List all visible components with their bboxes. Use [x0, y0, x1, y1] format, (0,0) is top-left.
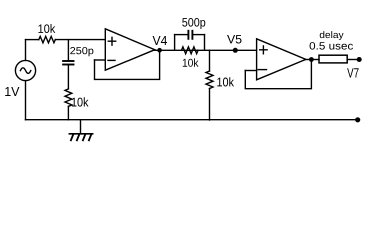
- resistor R4 10k vertical: [206, 71, 213, 89]
- wire main top-left corner to resistor R1: [26, 39, 39, 41]
- node rail end: [355, 117, 360, 122]
- sine wave inside source: [20, 68, 30, 74]
- wire R4 to ground rail: [209, 89, 211, 121]
- node V5: [233, 48, 238, 53]
- label V4: [153, 36, 167, 45]
- label 10k R1: [38, 24, 55, 33]
- wire up to capacitor C2 branch: [174, 35, 176, 51]
- ground hatch 3: [83, 135, 85, 141]
- ground symbol bar: [69, 133, 92, 135]
- wire delay box to V7: [347, 59, 359, 61]
- capacitor C1 250p bottom plate: [63, 64, 73, 66]
- delay box: [319, 55, 347, 63]
- ground hatch 2: [77, 135, 79, 141]
- wire U2 output to delay box: [306, 59, 319, 61]
- wire source top to main wire: [25, 40, 27, 61]
- label 500p C2: [182, 18, 205, 29]
- capacitor C2 500p left plate: [187, 31, 189, 39]
- wire U2 inverting stub: [245, 70, 256, 72]
- resistor R1 10k horizontal: [39, 36, 56, 42]
- label 10k R4: [217, 77, 234, 86]
- wire R1 to op-amp U1 + input: [55, 39, 105, 41]
- label 250p C1: [70, 47, 93, 56]
- op-amp U2 plus sign: [260, 46, 267, 54]
- wire to C2 left plate: [175, 34, 188, 36]
- wire C2 right plate to corner: [193, 34, 204, 36]
- ground hatch 4: [89, 135, 91, 141]
- ground hatch 1: [71, 135, 73, 141]
- wire down to resistor R4: [209, 50, 211, 71]
- node V7: [357, 57, 362, 62]
- capacitor C2 500p right plate: [191, 31, 193, 39]
- resistor R2 10k vertical: [65, 89, 72, 107]
- wire U1 inverting stub: [95, 59, 106, 61]
- wire U2 feedback loop: [245, 60, 311, 89]
- wire U1 output to network: [155, 49, 257, 51]
- resistor R3 10k horizontal: [182, 47, 199, 54]
- label 10k R3: [183, 58, 199, 66]
- op-amp U2 minus sign: [258, 69, 266, 71]
- label 10k R2: [72, 97, 89, 106]
- voltage source 1V: [15, 60, 35, 80]
- wire U1 feedback loop: [95, 50, 160, 80]
- wire junction down to capacitor C1: [67, 40, 69, 61]
- wire C1 to resistor R2: [67, 65, 69, 89]
- label V7: [347, 68, 358, 77]
- node V4: [157, 48, 162, 53]
- label delay: [320, 31, 344, 40]
- label 1V source: [5, 87, 19, 96]
- label 0.5 usec: [310, 42, 353, 50]
- node U2 output: [309, 57, 314, 62]
- op-amp U1 plus sign: [108, 37, 115, 45]
- ground rail wire: [26, 119, 358, 121]
- op-amp U2 triangle: [257, 39, 306, 80]
- wire rail to ground symbol: [80, 120, 82, 134]
- op-amp U1 triangle: [105, 29, 155, 70]
- op-amp U1 minus sign: [108, 59, 115, 61]
- capacitor C1 250p top plate: [63, 60, 73, 62]
- label V5: [227, 35, 241, 44]
- wire R2 to ground rail: [67, 106, 69, 119]
- wire corner down to main wire: [204, 35, 206, 51]
- wire source bottom to ground rail: [25, 81, 27, 120]
